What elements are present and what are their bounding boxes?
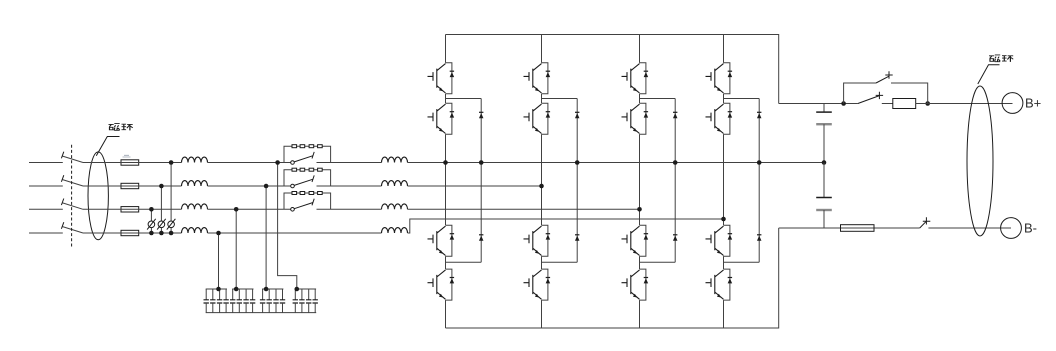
wire: DC+ top rail xyxy=(446,35,779,104)
clamp diode D1b xyxy=(479,235,484,241)
junction dot DC midpoint xyxy=(822,160,827,165)
fuse FU3 xyxy=(121,207,139,212)
DC-link capacitor C1 (upper) xyxy=(816,104,832,163)
wire: phase 1 contactor to coil bank 2 xyxy=(317,162,382,164)
junction dot feed group 3 xyxy=(264,287,269,292)
contactor KM3 with pre-charge resistor chain xyxy=(284,192,331,212)
junction dot phase3 feed xyxy=(234,207,239,212)
junction dot clamp 2 on neutral bus xyxy=(575,160,580,165)
IGBT T4 leg 1 (with anti-parallel diode) xyxy=(428,269,455,300)
wire: phase 4 (fuse to coil) xyxy=(83,232,182,234)
junction dot clamp 1 on neutral bus xyxy=(479,160,484,165)
wire: B- line from rail xyxy=(779,227,920,229)
wire: leg 1 vertical xyxy=(445,35,447,329)
junction dot phase1/RV3 xyxy=(169,160,174,165)
IGBT T4 leg 4 (with anti-parallel diode) xyxy=(706,269,733,300)
clamp diode D2b xyxy=(575,235,580,241)
wire: arrester branch from phase 3 xyxy=(150,209,152,233)
junction dot clamp 4 on neutral bus xyxy=(757,160,762,165)
fuse FU2 xyxy=(121,183,139,188)
wire: phase 3 (fuse to coil) xyxy=(83,208,182,210)
IGBT T3 leg 1 (with anti-parallel diode) xyxy=(428,225,455,256)
contactor KM1 with pre-charge resistor chain xyxy=(284,145,331,165)
wire: cap-bank feed from phase 2 xyxy=(265,186,267,289)
wire: phase 1 coil to contactor xyxy=(208,162,291,164)
filter capacitor group C2 (bank) xyxy=(230,289,255,313)
disconnect switch QS1 xyxy=(61,152,83,163)
surge arrester RV1 xyxy=(147,219,156,230)
junction dot phase1 feed xyxy=(275,160,280,165)
wire: phase 3 contactor to coil bank 2 xyxy=(317,208,382,210)
filter capacitor group C1 (bank) xyxy=(204,289,229,313)
switch S1 blade (main B+ line) xyxy=(858,96,880,104)
wire: phase 3 into bridge xyxy=(408,208,640,210)
wire: phase 4 step-up into bridge xyxy=(408,219,724,233)
fuse rating label (tiny) xyxy=(123,155,131,157)
fuse FU4 xyxy=(121,230,139,235)
switch S2 blade (upper bypass) xyxy=(876,76,889,83)
label leader line (output ferrite) xyxy=(978,65,1000,84)
wire: phase 2 coil to contactor xyxy=(208,185,291,187)
wire: cap-bank feed from phase 1 xyxy=(278,163,297,290)
wire: B+ node to terminal xyxy=(928,103,1013,105)
wire: bypass branch (upper) xyxy=(844,83,928,104)
wire: B+ switch to resistor xyxy=(882,103,893,105)
ferrite ring (output common-mode core) xyxy=(967,86,993,236)
label leader line (input ferrite) xyxy=(96,137,119,156)
wire: phase 2 (fuse to coil) xyxy=(83,185,182,187)
IGBT T4 leg 2 (with anti-parallel diode) xyxy=(524,269,551,300)
junction dot phase4 feed xyxy=(216,231,221,236)
IGBT T2 leg 3 (with anti-parallel diode) xyxy=(622,103,649,134)
contactor KM2 with pre-charge resistor chain xyxy=(284,168,331,188)
IGBT T1 leg 4 (with anti-parallel diode) xyxy=(706,63,733,94)
disconnect switch QS3 xyxy=(61,199,83,210)
surge arrester RV3 xyxy=(167,219,176,230)
junction dot phase2/RV2 xyxy=(159,184,164,189)
clamp diode D4a xyxy=(757,112,762,118)
junction dot RV3 on phase 4 xyxy=(169,231,174,236)
junction dot RV2 on phase 4 xyxy=(159,231,164,236)
wire: arrester branch from phase 1 xyxy=(170,163,172,234)
svg-text:B+: B+ xyxy=(1025,96,1041,111)
wire: clamp branch leg 1 xyxy=(446,99,482,263)
clamp diode D3a xyxy=(673,112,678,118)
ferrite ring (input common-mode core) xyxy=(88,152,108,240)
filter capacitor group C3 (bank) xyxy=(260,289,285,313)
wire: cap-bank feed from phase 4 xyxy=(218,233,220,289)
disconnect switch QS2 xyxy=(61,175,83,186)
wire: capacitor bank bottom bus xyxy=(206,312,317,314)
junction dot phase at leg 1 xyxy=(443,160,448,165)
junction dot phase at leg 2 xyxy=(539,184,544,189)
reference dash-dot boundary line xyxy=(71,145,73,249)
junction dot phase at leg 3 xyxy=(637,207,642,212)
inductor L1a (bank 1) xyxy=(182,157,208,162)
junction dot phase2 feed xyxy=(264,184,269,189)
junction dot B+ branch right xyxy=(925,101,930,106)
junction dot feed group 1 xyxy=(216,287,221,292)
IGBT T4 leg 3 (with anti-parallel diode) xyxy=(622,269,649,300)
wire: leg 3 vertical xyxy=(639,35,641,329)
switch S3 blade (B- line) xyxy=(920,221,927,228)
text label 磁环 (output ferrite ring) xyxy=(989,55,1013,62)
clamp diode D1a xyxy=(479,112,484,118)
inductor L1c (bank 1) xyxy=(182,204,208,209)
wire: phase 1 (fuse to coil) xyxy=(83,162,182,164)
inductor L2c (bank 2) xyxy=(382,204,408,209)
surge arrester RV2 xyxy=(157,219,166,230)
wire: resistor to B+ node xyxy=(916,103,928,105)
fuse FU5 (B- line) xyxy=(841,225,875,232)
wire: phase 3 coil to contactor xyxy=(208,208,291,210)
pre-charge resistor R1 xyxy=(893,99,916,109)
wire: phase 1 / neutral bus to DC midpoint xyxy=(408,162,825,164)
terminal circle B+ xyxy=(1002,93,1023,114)
junction dot phase3/RV1 xyxy=(149,207,154,212)
inductor L1d (bank 1) xyxy=(182,228,208,233)
wire: clamp branch leg 3 xyxy=(640,99,676,263)
wire: cap-bank feed from phase 3 xyxy=(235,209,237,289)
wire: grid input stubs (4 lines) xyxy=(29,163,63,234)
fuse FU1 xyxy=(121,160,139,165)
wire: DC- bottom rail xyxy=(446,228,779,328)
switch S1 tick xyxy=(876,92,883,99)
filter capacitor group C4 (bank) xyxy=(293,289,318,313)
wire: B- switch to terminal xyxy=(928,227,1011,229)
inductor L1b (bank 1) xyxy=(182,181,208,186)
wire: leg 4 vertical xyxy=(723,35,725,329)
wire: arrester branch from phase 2 xyxy=(160,186,162,233)
text label 磁环 (input ferrite ring) xyxy=(109,124,133,131)
wire: clamp branch leg 4 xyxy=(724,99,760,263)
switch S2 tick xyxy=(885,71,892,78)
text label B- xyxy=(1024,221,1037,236)
junction dot RV1 on phase 4 xyxy=(149,231,154,236)
text label B+ xyxy=(1025,96,1041,111)
junction dot phase at leg 4 xyxy=(721,217,726,222)
wire: leg 2 vertical xyxy=(541,35,543,329)
IGBT T1 leg 1 (with anti-parallel diode) xyxy=(428,63,455,94)
terminal circle B- xyxy=(1001,218,1022,239)
DC-link capacitor C2 (lower) xyxy=(816,163,832,229)
IGBT T3 leg 3 (with anti-parallel diode) xyxy=(622,225,649,256)
junction dot feed group 4 xyxy=(295,287,300,292)
inductor L2a (bank 2) xyxy=(382,157,408,162)
clamp diode D2a xyxy=(575,112,580,118)
IGBT T2 leg 2 (with anti-parallel diode) xyxy=(524,103,551,134)
wire: B+ line from rail corner xyxy=(779,103,858,105)
IGBT T2 leg 4 (with anti-parallel diode) xyxy=(706,103,733,134)
junction dot B+ branch left xyxy=(841,101,846,106)
clamp diode D4b xyxy=(757,235,762,241)
junction dot feed group 2 xyxy=(234,287,239,292)
disconnect switch QS4 xyxy=(61,222,83,233)
IGBT T3 leg 4 (with anti-parallel diode) xyxy=(706,225,733,256)
wire: phase 2 into bridge xyxy=(408,185,542,187)
clamp diode D3b xyxy=(673,235,678,241)
IGBT T3 leg 2 (with anti-parallel diode) xyxy=(524,225,551,256)
IGBT T1 leg 3 (with anti-parallel diode) xyxy=(622,63,649,94)
inductor L2b (bank 2) xyxy=(382,181,408,186)
wire: phase 4 straight through xyxy=(208,232,382,234)
svg-text:B-: B- xyxy=(1024,221,1037,236)
wire: clamp branch leg 2 xyxy=(542,99,578,263)
switch S3 tick xyxy=(923,217,931,224)
IGBT T2 leg 1 (with anti-parallel diode) xyxy=(428,103,455,134)
IGBT T1 leg 2 (with anti-parallel diode) xyxy=(524,63,551,94)
junction dot clamp 3 on neutral bus xyxy=(673,160,678,165)
wire: phase 2 contactor to coil bank 2 xyxy=(317,185,382,187)
inductor L2d (bank 2) xyxy=(382,228,408,233)
